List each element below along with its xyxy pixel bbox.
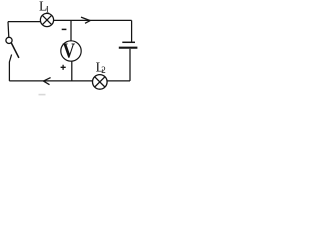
current arrow right <box>81 17 90 23</box>
label minus <box>62 28 67 30</box>
wire right-top vertical <box>131 20 133 41</box>
faint scan smudge <box>39 94 46 96</box>
wire left-top vertical <box>7 22 10 38</box>
label plus <box>61 65 66 70</box>
battery B1 bottom plate <box>119 47 138 49</box>
wire bottom-left segment <box>9 80 92 82</box>
wire top-right segment <box>54 19 132 21</box>
battery B1 top plate <box>122 41 135 43</box>
label L2 <box>96 59 106 75</box>
wire bottom-right segment <box>107 80 130 82</box>
svg-text:1: 1 <box>45 4 50 14</box>
switch S blade <box>11 43 19 58</box>
voltmeter U1 <box>61 41 81 61</box>
wire top-left segment <box>8 21 41 23</box>
switch S pivot <box>6 37 12 43</box>
label L1 <box>39 0 50 14</box>
lamp L2 <box>93 75 108 90</box>
current arrow left <box>43 78 50 85</box>
voltmeter bottom lead <box>71 61 73 81</box>
svg-text:2: 2 <box>101 65 106 75</box>
voltmeter top lead <box>70 20 72 41</box>
svg-text:V: V <box>63 39 76 63</box>
wire right-bottom vertical <box>129 49 131 81</box>
wire left-bottom vertical <box>9 55 11 81</box>
lamp L1 <box>40 13 53 26</box>
label V <box>63 39 76 63</box>
